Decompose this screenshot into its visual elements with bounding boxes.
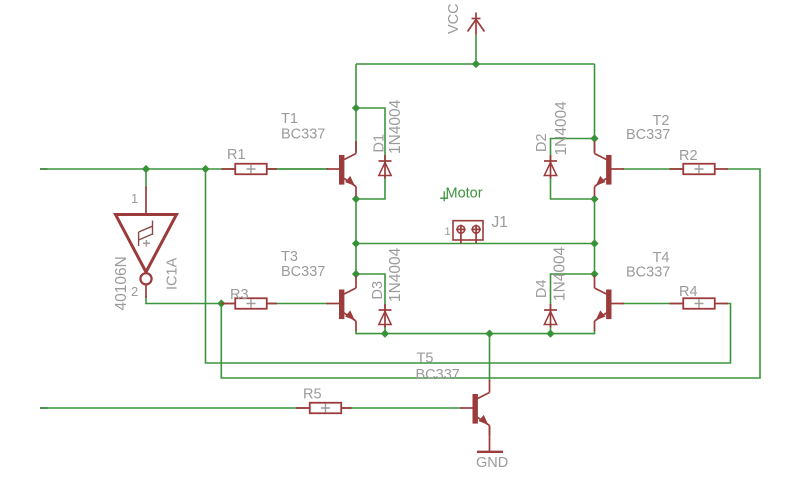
junction node T1 emitter — [352, 195, 360, 203]
diode D4 — [544, 304, 557, 328]
wire left rail upper (T1 collector) — [355, 64, 357, 152]
junction node motor left — [352, 239, 360, 247]
svg-text:1: 1 — [131, 191, 138, 206]
diode D2 — [544, 155, 557, 179]
svg-text:D3: D3 — [370, 281, 386, 300]
svg-text:BC337: BC337 — [281, 264, 325, 280]
junction node D4 top — [590, 270, 598, 278]
resistor R4 — [670, 298, 729, 309]
op-amp style inverter IC1A — [116, 187, 177, 299]
svg-text:BC337: BC337 — [626, 265, 670, 281]
junction node D2 top — [590, 134, 598, 142]
wire D1 branch — [356, 108, 385, 199]
ground symbol — [477, 426, 503, 452]
wire IC output to R3 — [146, 296, 328, 304]
svg-text:1N4004: 1N4004 — [552, 246, 569, 301]
svg-text:1N4004: 1N4004 — [387, 247, 404, 302]
svg-text:BC337: BC337 — [416, 367, 460, 383]
transistor T5 — [460, 380, 490, 436]
wire motor horizontal — [356, 243, 595, 245]
open wire end stub top input — [40, 168, 48, 170]
wire R5 to T5 base — [340, 407, 461, 409]
svg-text:D2: D2 — [534, 133, 550, 152]
junction node T2 emitter — [590, 195, 598, 203]
wire input bottom from left edge to R5 — [40, 407, 311, 409]
wire loop A: input node to R4 — [206, 169, 731, 363]
wire top rail VCC — [356, 63, 595, 65]
open wire end stub bottom input — [40, 407, 48, 409]
junction node D3 top — [352, 270, 360, 278]
svg-text:1N4004: 1N4004 — [553, 101, 570, 156]
wire R1 to T1 base — [266, 168, 328, 170]
svg-text:D1: D1 — [372, 134, 388, 153]
svg-text:T1: T1 — [281, 111, 298, 127]
wire left rail middle (T1 emitter to T3 collector) — [355, 197, 357, 277]
wire T2 base to R2 — [622, 168, 684, 170]
svg-text:BC337: BC337 — [626, 127, 670, 143]
svg-text:40106N: 40106N — [113, 256, 130, 310]
junction node input/R1 — [201, 165, 209, 173]
label origin cross Motor — [440, 191, 448, 201]
wire bottom emitter rail — [356, 330, 595, 334]
svg-text:T3: T3 — [281, 249, 298, 265]
svg-text:R2: R2 — [679, 148, 698, 164]
connector J1 — [453, 221, 483, 244]
resistor R1 — [222, 164, 278, 175]
junction node D1 top — [352, 104, 360, 112]
wire IC pin1 net — [145, 169, 147, 188]
junction node T5 collector — [485, 330, 493, 338]
transistor T2 — [595, 141, 625, 197]
diode D3 — [379, 304, 392, 328]
junction node D3 bottom — [381, 330, 389, 338]
svg-text:IC1A: IC1A — [165, 257, 181, 290]
resistor R2 — [670, 164, 729, 175]
svg-text:2: 2 — [131, 284, 138, 299]
resistor R3 — [222, 298, 278, 309]
svg-text:R4: R4 — [679, 284, 698, 300]
svg-text:VCC: VCC — [446, 3, 462, 34]
svg-text:D4: D4 — [534, 279, 550, 298]
svg-text:J1: J1 — [492, 214, 508, 231]
resistor R5 — [296, 403, 352, 414]
junction node input/IC — [142, 165, 150, 173]
svg-text:BC337: BC337 — [281, 127, 325, 143]
junction node motor right — [590, 239, 598, 247]
transistor T4 — [595, 276, 625, 332]
wire D2 branch — [551, 139, 595, 200]
wire R4 to T4 base — [622, 303, 684, 305]
svg-text:1N4004: 1N4004 — [387, 99, 404, 154]
svg-text:1: 1 — [445, 226, 451, 238]
svg-text:R5: R5 — [303, 387, 322, 403]
wire T5 collector — [489, 334, 491, 381]
transistor T1 — [327, 141, 357, 197]
wire right rail middle (T2 emitter to T4 collector) — [594, 197, 596, 277]
svg-text:R3: R3 — [230, 287, 249, 303]
wire D4 branch — [551, 274, 595, 334]
transistor T3 — [327, 276, 357, 332]
wire D3 branch — [356, 274, 385, 334]
junction node D4 bottom — [546, 330, 554, 338]
svg-text:T5: T5 — [417, 351, 434, 367]
junction node VCC — [472, 60, 480, 68]
junction node ICout/R3 — [217, 299, 225, 307]
svg-text:GND: GND — [476, 455, 508, 471]
wire right rail upper (T2 collector) — [594, 64, 596, 152]
VCC supply symbol — [468, 13, 485, 35]
diode D1 — [379, 155, 392, 179]
wire loop B: IC out node to R2 — [221, 169, 760, 378]
wire VCC stub — [475, 35, 477, 65]
wire input top from left edge to R1/T1 base — [40, 168, 328, 170]
svg-text:R1: R1 — [227, 147, 246, 163]
svg-text:Motor: Motor — [446, 186, 483, 202]
